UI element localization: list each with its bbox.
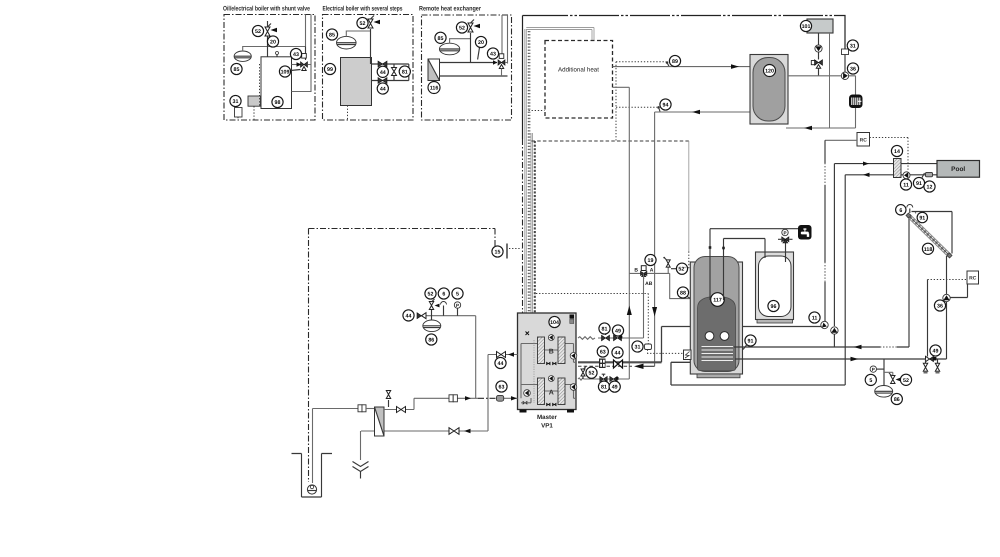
svg-text:52: 52 [428, 292, 434, 298]
svg-text:85: 85 [234, 67, 240, 73]
svg-text:94: 94 [663, 103, 669, 109]
svg-text:98: 98 [275, 100, 281, 106]
svg-text:91: 91 [916, 181, 922, 187]
svg-text:31: 31 [850, 44, 856, 50]
svg-text:49: 49 [933, 349, 939, 355]
svg-text:A: A [650, 267, 654, 273]
svg-text:52: 52 [255, 29, 261, 35]
svg-text:89: 89 [672, 59, 678, 65]
svg-text:91: 91 [748, 339, 754, 345]
svg-text:Electrical boiler with several: Electrical boiler with several steps [323, 6, 403, 13]
svg-text:36: 36 [850, 67, 856, 73]
svg-text:P: P [456, 303, 459, 308]
svg-text:11: 11 [903, 183, 909, 189]
svg-text:63: 63 [499, 385, 505, 391]
svg-text:116: 116 [430, 86, 439, 92]
svg-text:Pool: Pool [951, 166, 965, 173]
svg-text:91: 91 [919, 216, 925, 222]
svg-text:31: 31 [635, 345, 641, 351]
svg-text:5: 5 [456, 292, 459, 298]
svg-text:44: 44 [380, 70, 386, 76]
svg-text:49: 49 [612, 385, 618, 391]
svg-text:81: 81 [602, 327, 608, 333]
svg-text:52': 52' [678, 267, 685, 273]
svg-text:Oil/electrical boiler with shu: Oil/electrical boiler with shunt valve [223, 6, 310, 13]
svg-text:44: 44 [615, 351, 621, 357]
svg-text:88: 88 [680, 291, 686, 297]
svg-text:43: 43 [490, 52, 496, 58]
svg-text:43: 43 [293, 52, 299, 58]
svg-text:85: 85 [438, 36, 444, 42]
svg-text:44: 44 [380, 87, 386, 93]
svg-text:B: B [634, 267, 638, 273]
svg-text:52: 52 [589, 371, 595, 377]
svg-text:49: 49 [615, 329, 621, 335]
svg-text:101: 101 [802, 24, 811, 30]
svg-text:RC: RC [860, 138, 868, 144]
svg-text:109: 109 [281, 70, 290, 76]
svg-text:117: 117 [713, 298, 722, 304]
svg-text:6: 6 [899, 208, 902, 214]
svg-text:118: 118 [924, 247, 933, 253]
svg-text:Remote heat exchanger: Remote heat exchanger [419, 6, 481, 13]
svg-text:P: P [783, 231, 786, 236]
svg-text:52: 52 [459, 26, 465, 32]
svg-text:5: 5 [869, 378, 872, 384]
svg-text:96: 96 [771, 304, 777, 310]
svg-text:12: 12 [927, 185, 933, 191]
svg-text:AB: AB [645, 281, 653, 287]
svg-text:31: 31 [233, 99, 239, 105]
svg-text:81: 81 [601, 385, 607, 391]
svg-text:20: 20 [478, 40, 484, 46]
svg-text:81: 81 [402, 70, 408, 76]
svg-text:RC: RC [969, 276, 977, 282]
svg-text:P: P [872, 367, 875, 372]
svg-text:85: 85 [329, 33, 335, 39]
svg-text:15: 15 [495, 250, 501, 256]
svg-text:6: 6 [442, 292, 445, 298]
svg-text:86: 86 [894, 397, 900, 403]
svg-text:63: 63 [600, 350, 606, 356]
svg-text:99: 99 [327, 67, 333, 73]
svg-text:52: 52 [360, 21, 366, 27]
svg-text:Master: Master [537, 414, 558, 421]
svg-text:86: 86 [428, 338, 434, 344]
svg-text:104: 104 [550, 320, 559, 326]
svg-text:VP1: VP1 [541, 423, 553, 430]
svg-text:52: 52 [903, 378, 909, 384]
svg-text:44: 44 [406, 313, 412, 319]
svg-text:20: 20 [270, 40, 276, 46]
svg-text:44: 44 [498, 361, 504, 367]
svg-text:14: 14 [894, 149, 900, 155]
svg-text:19: 19 [648, 258, 654, 264]
svg-text:Additional heat: Additional heat [558, 67, 599, 74]
svg-text:120: 120 [765, 69, 774, 75]
svg-text:11: 11 [812, 316, 818, 322]
svg-text:B: B [549, 349, 554, 356]
svg-text:A: A [549, 390, 554, 397]
svg-text:36: 36 [937, 304, 943, 310]
